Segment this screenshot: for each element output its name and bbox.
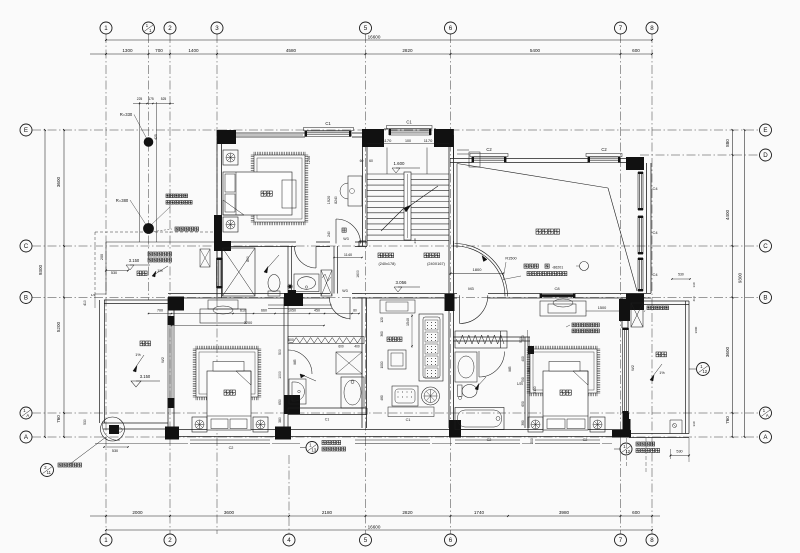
svg-text:9300: 9300 bbox=[738, 272, 743, 283]
svg-text:3600: 3600 bbox=[694, 326, 698, 333]
svg-text:2100: 2100 bbox=[533, 386, 537, 393]
svg-text:2000: 2000 bbox=[132, 510, 143, 515]
svg-text:2820: 2820 bbox=[402, 510, 413, 515]
svg-text:1%: 1% bbox=[135, 353, 141, 357]
svg-text:1%: 1% bbox=[659, 371, 665, 375]
svg-text:1600: 1600 bbox=[356, 270, 360, 278]
svg-text:1/4: 1/4 bbox=[91, 293, 96, 297]
svg-text:(240x178): (240x178) bbox=[378, 262, 396, 266]
svg-text:1400: 1400 bbox=[188, 48, 199, 53]
svg-text:E: E bbox=[763, 127, 767, 134]
svg-text:8: 8 bbox=[650, 537, 654, 544]
svg-text:1206: 1206 bbox=[307, 156, 311, 164]
svg-text:120: 120 bbox=[380, 317, 384, 323]
svg-text:7: 7 bbox=[619, 25, 623, 32]
svg-text:M5: M5 bbox=[508, 367, 512, 372]
svg-text:C2: C2 bbox=[229, 446, 234, 450]
svg-text:B: B bbox=[763, 295, 767, 302]
svg-text:E: E bbox=[24, 127, 28, 134]
svg-text:400: 400 bbox=[354, 345, 360, 349]
svg-text:530: 530 bbox=[112, 449, 118, 453]
svg-text:16600: 16600 bbox=[368, 525, 381, 530]
svg-text:240: 240 bbox=[413, 238, 417, 243]
svg-text:1050: 1050 bbox=[288, 309, 296, 313]
svg-text:760: 760 bbox=[56, 415, 61, 423]
svg-text:9300: 9300 bbox=[38, 264, 43, 275]
svg-text:600: 600 bbox=[338, 345, 344, 349]
svg-text:8: 8 bbox=[650, 25, 654, 32]
svg-text:790: 790 bbox=[521, 377, 525, 383]
svg-text:1170: 1170 bbox=[383, 138, 392, 143]
svg-text:6: 6 bbox=[449, 25, 453, 32]
svg-text:W3: W3 bbox=[342, 289, 347, 293]
svg-text:W2: W2 bbox=[160, 356, 165, 363]
svg-text:C4: C4 bbox=[652, 230, 658, 235]
svg-text:M5: M5 bbox=[293, 360, 297, 365]
svg-text:530: 530 bbox=[678, 273, 684, 277]
svg-text:C2: C2 bbox=[601, 147, 607, 152]
svg-text:530: 530 bbox=[83, 419, 87, 425]
svg-text:5: 5 bbox=[364, 537, 368, 544]
svg-text:5200: 5200 bbox=[56, 321, 61, 332]
svg-text:1%: 1% bbox=[157, 269, 163, 273]
svg-text:400: 400 bbox=[521, 356, 525, 362]
svg-text:410: 410 bbox=[83, 300, 87, 306]
svg-text:880: 880 bbox=[725, 139, 730, 147]
svg-text:3200: 3200 bbox=[244, 321, 252, 325]
svg-text:1800: 1800 bbox=[473, 267, 483, 272]
svg-text:1: 1 bbox=[104, 537, 108, 544]
svg-text:800: 800 bbox=[246, 256, 250, 262]
svg-text:R=330: R=330 bbox=[120, 112, 133, 117]
svg-text:16600: 16600 bbox=[368, 35, 381, 40]
svg-text:1500: 1500 bbox=[598, 306, 606, 310]
svg-text:7: 7 bbox=[619, 537, 623, 544]
svg-text:360: 360 bbox=[380, 331, 384, 337]
svg-text:600: 600 bbox=[632, 510, 640, 515]
svg-text:B: B bbox=[24, 295, 28, 302]
svg-text:2820: 2820 bbox=[402, 48, 413, 53]
svg-text:760: 760 bbox=[725, 416, 730, 424]
svg-text:525: 525 bbox=[161, 97, 167, 101]
svg-text:C1: C1 bbox=[406, 418, 411, 422]
svg-text:R1500: R1500 bbox=[505, 257, 516, 261]
svg-text:R=380: R=380 bbox=[116, 198, 129, 203]
svg-text:1540: 1540 bbox=[406, 318, 410, 326]
svg-text:380: 380 bbox=[278, 417, 282, 423]
svg-text:175: 175 bbox=[148, 97, 154, 101]
svg-text:130: 130 bbox=[692, 282, 696, 287]
svg-text:450: 450 bbox=[314, 309, 320, 313]
svg-text:5400: 5400 bbox=[530, 48, 541, 53]
svg-text:530: 530 bbox=[676, 450, 682, 454]
svg-text:C4: C4 bbox=[652, 186, 658, 191]
svg-text:1920: 1920 bbox=[327, 196, 331, 204]
svg-text:3600: 3600 bbox=[224, 510, 235, 515]
svg-text:4: 4 bbox=[287, 537, 291, 544]
svg-text:C2: C2 bbox=[486, 147, 492, 152]
svg-text:500: 500 bbox=[521, 335, 525, 341]
svg-text:500: 500 bbox=[278, 349, 282, 355]
svg-text:80: 80 bbox=[353, 309, 357, 313]
svg-text:3.056: 3.056 bbox=[396, 280, 408, 285]
svg-text:12: 12 bbox=[625, 449, 630, 454]
svg-text:1000: 1000 bbox=[380, 361, 384, 368]
svg-text:1.600: 1.600 bbox=[394, 161, 406, 166]
svg-text:410: 410 bbox=[692, 296, 696, 301]
svg-text:2180: 2180 bbox=[322, 510, 333, 515]
svg-text:8240: 8240 bbox=[334, 196, 338, 204]
svg-text:C1: C1 bbox=[406, 120, 412, 125]
svg-text:200: 200 bbox=[530, 438, 534, 444]
svg-text:C1: C1 bbox=[325, 418, 330, 422]
svg-text:2: 2 bbox=[168, 537, 172, 544]
svg-text:12: 12 bbox=[702, 369, 707, 374]
svg-text:C1: C1 bbox=[325, 121, 331, 126]
svg-text:200: 200 bbox=[100, 254, 104, 260]
svg-text:3600: 3600 bbox=[56, 176, 61, 187]
svg-text:610: 610 bbox=[240, 309, 246, 313]
svg-text:C8: C8 bbox=[554, 286, 560, 291]
svg-text:5: 5 bbox=[364, 25, 368, 32]
svg-text:700: 700 bbox=[155, 48, 163, 53]
svg-text:700: 700 bbox=[157, 309, 163, 313]
svg-text:-86201: -86201 bbox=[552, 266, 563, 270]
svg-text:650: 650 bbox=[278, 399, 282, 405]
svg-text:A: A bbox=[26, 413, 29, 418]
svg-text:4580: 4580 bbox=[286, 48, 297, 53]
svg-text:D: D bbox=[763, 152, 768, 159]
svg-text:380: 380 bbox=[521, 420, 525, 426]
svg-text:1000: 1000 bbox=[278, 371, 282, 379]
svg-text:480: 480 bbox=[380, 395, 384, 401]
svg-text:1300: 1300 bbox=[122, 48, 133, 53]
svg-text:C: C bbox=[763, 243, 768, 250]
svg-text:100: 100 bbox=[405, 139, 411, 143]
svg-text:3: 3 bbox=[215, 25, 219, 32]
svg-text:600: 600 bbox=[632, 48, 640, 53]
svg-text:6: 6 bbox=[449, 537, 453, 544]
svg-text:425: 425 bbox=[154, 134, 158, 140]
svg-text:4400: 4400 bbox=[725, 209, 730, 220]
svg-text:W3: W3 bbox=[343, 237, 348, 241]
svg-text:1170: 1170 bbox=[424, 138, 433, 143]
svg-text:660: 660 bbox=[261, 309, 267, 313]
svg-text:3980: 3980 bbox=[559, 510, 570, 515]
svg-text:3600: 3600 bbox=[725, 346, 730, 357]
svg-text:1740: 1740 bbox=[474, 510, 485, 515]
svg-text:W2: W2 bbox=[630, 364, 635, 371]
svg-text:A: A bbox=[766, 413, 769, 418]
svg-text:225: 225 bbox=[137, 97, 143, 101]
svg-text:600: 600 bbox=[288, 338, 294, 342]
svg-text:240: 240 bbox=[327, 231, 331, 237]
svg-text:3.150: 3.150 bbox=[129, 258, 140, 263]
svg-text:1140: 1140 bbox=[344, 253, 352, 257]
svg-text:(240X167): (240X167) bbox=[427, 262, 445, 266]
svg-text:330: 330 bbox=[692, 421, 696, 426]
svg-text:1: 1 bbox=[104, 25, 108, 32]
svg-text:60: 60 bbox=[369, 159, 373, 163]
svg-text:60: 60 bbox=[360, 159, 364, 163]
svg-text:C: C bbox=[24, 243, 29, 250]
svg-text:13: 13 bbox=[311, 448, 316, 453]
svg-text:530: 530 bbox=[111, 271, 117, 275]
svg-text:11: 11 bbox=[47, 470, 52, 475]
svg-text:3.150: 3.150 bbox=[140, 374, 151, 379]
svg-text:2: 2 bbox=[168, 25, 172, 32]
svg-text:C4: C4 bbox=[652, 272, 658, 277]
svg-text:M3: M3 bbox=[468, 286, 474, 291]
svg-text:650: 650 bbox=[521, 401, 525, 407]
